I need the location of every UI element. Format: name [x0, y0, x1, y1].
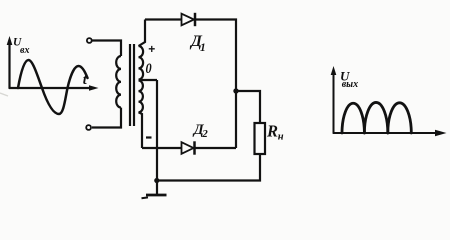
svg-text:R: R	[266, 121, 278, 140]
svg-text:1: 1	[200, 42, 206, 54]
svg-text:0: 0	[146, 60, 152, 76]
svg-text:2: 2	[201, 128, 208, 140]
svg-text:н: н	[278, 132, 284, 143]
svg-text:+: +	[148, 42, 155, 56]
svg-text:вых: вых	[342, 79, 358, 90]
svg-text:вх: вх	[20, 45, 29, 56]
